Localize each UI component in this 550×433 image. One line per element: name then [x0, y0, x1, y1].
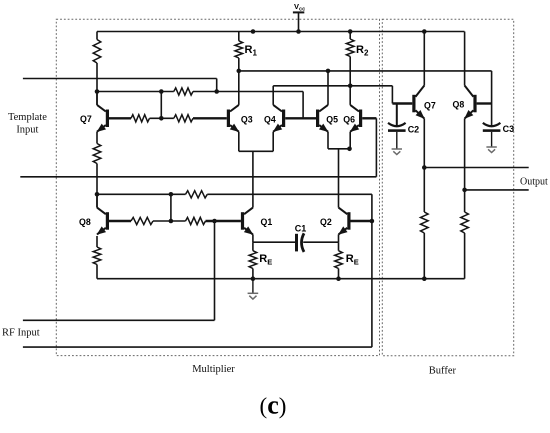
- wire buffer Q7 emitter: [423, 119, 425, 168]
- wire Q7 base lead: [109, 117, 131, 119]
- svg-text:Q7: Q7: [80, 114, 92, 124]
- wire row194 to Q2 base: [207, 193, 372, 195]
- wire Q2 base lead: [351, 220, 372, 222]
- wire Q6 emitter down: [349, 132, 351, 149]
- node output 2 junction: [462, 188, 467, 193]
- wire Q8 emitter down: [96, 236, 98, 247]
- wire Q5 emitter down: [327, 132, 329, 149]
- wire buffer Q8 emitter: [464, 119, 466, 190]
- node RF tie junction: [212, 219, 217, 224]
- svg-text:Q8: Q8: [453, 100, 465, 110]
- wire Q1 collector riser: [252, 151, 254, 207]
- svg-text:C1: C1: [295, 224, 307, 234]
- wire Q5/Q6 emitter bus: [328, 148, 350, 150]
- node junction B2: [169, 219, 174, 224]
- transistor Q2: [347, 212, 350, 230]
- capacitor C3: [483, 123, 501, 126]
- wire Q6 collector up: [349, 86, 351, 105]
- svg-text:(c): (c): [260, 391, 287, 420]
- wire Q7 collector: [96, 92, 98, 105]
- capacitor C2: [396, 104, 398, 127]
- node Q2 base junction: [370, 219, 375, 224]
- resistor buffer load 2: [464, 190, 466, 212]
- node template tie junction: [214, 89, 219, 94]
- ground C3: [486, 146, 496, 148]
- wire base row link: [150, 117, 174, 119]
- wire bottom rail: [97, 278, 465, 280]
- wire bias node row y91: [97, 91, 174, 93]
- wire top supply rail: [97, 31, 465, 33]
- svg-text:Q6: Q6: [343, 114, 355, 124]
- wire Q4/Q6 collector line: [273, 85, 392, 87]
- svg-text:Multiplier: Multiplier: [192, 364, 235, 375]
- svg-text:Q3: Q3: [241, 114, 253, 124]
- resistor Q8 base R2b: [186, 217, 206, 224]
- transistor Q6: [359, 110, 362, 128]
- svg-text:RF Input: RF Input: [2, 328, 40, 339]
- svg-text:Q4: Q4: [264, 114, 276, 124]
- node Q7 collector junction: [95, 89, 100, 94]
- wire output line 2: [465, 189, 529, 191]
- transistor Q1: [241, 212, 244, 230]
- wire buffer Q8 collector: [464, 32, 466, 86]
- wire Q2 emitter node: [303, 241, 338, 243]
- dashed box Multiplier section: [56, 19, 379, 355]
- wire base row2 link: [153, 220, 186, 222]
- node junction A: [159, 89, 164, 94]
- wire buffer Q8 base: [477, 102, 492, 104]
- wire output line 1: [424, 167, 528, 169]
- wire Q8 base lead: [109, 220, 131, 222]
- svg-text:Buffer: Buffer: [429, 366, 457, 377]
- wire to Q3 base: [193, 117, 227, 119]
- wire RF Input line 1: [23, 319, 215, 321]
- resistor Q8 base R2a: [131, 217, 153, 224]
- wire Q1 emitter down: [252, 234, 254, 242]
- svg-text:Output: Output: [520, 177, 548, 188]
- wire vertical link A: [160, 92, 162, 119]
- wire Q2 collector riser: [338, 149, 340, 208]
- power Vcc symbol: [293, 11, 304, 13]
- transistor Q4: [282, 110, 285, 128]
- dashed box Buffer section: [382, 19, 513, 355]
- wire Q3 collector up: [238, 71, 240, 105]
- resistor bias row bottom: [186, 191, 208, 198]
- node Q3 collector to R1: [237, 69, 242, 74]
- wire Q4 collector up: [272, 86, 274, 105]
- transistor Q8 (multiplier): [106, 212, 109, 230]
- wire Q8 collector: [96, 194, 98, 207]
- resistor Q7 base R1b: [174, 115, 193, 122]
- wire bias node row y194: [97, 193, 186, 195]
- node bus junction: [347, 147, 352, 152]
- node Q5 collector junction: [326, 69, 331, 74]
- wire Q1 emitter node: [253, 241, 295, 243]
- resistor Q7 base R1a: [131, 115, 150, 122]
- resistor left bias (top): [96, 32, 98, 40]
- node buffer Q7 collector junction: [422, 29, 427, 34]
- ground main: [252, 279, 254, 293]
- svg-text:Q7: Q7: [424, 100, 436, 110]
- wire Q6 base to template2: [362, 117, 376, 119]
- wire Q2 emitter down: [338, 234, 340, 242]
- svg-text:Q8: Q8: [79, 217, 91, 227]
- svg-text:Q2: Q2: [320, 217, 332, 227]
- svg-text:Q5: Q5: [326, 114, 338, 124]
- svg-text:C2: C2: [408, 124, 420, 134]
- wire Q3/Q4 emitter bus: [239, 150, 273, 152]
- capacitor C1: [295, 234, 298, 252]
- node buffer R1 bottom junction: [422, 276, 427, 281]
- resistor RE (right): [338, 242, 340, 251]
- wire buffer Q7 collector: [423, 32, 425, 86]
- svg-text:C3: C3: [503, 124, 515, 134]
- wire Template Input line 2: [20, 176, 376, 178]
- wire Q7 emitter down: [96, 132, 98, 144]
- transistor Q7 (multiplier): [106, 110, 109, 128]
- node stray junction on rail: [251, 29, 256, 34]
- svg-text:Input: Input: [16, 125, 38, 136]
- transistor Q8 (buffer): [473, 95, 476, 113]
- resistor Q7 emitter: [93, 144, 101, 164]
- wire Q3/Q5 collector line: [239, 70, 492, 72]
- transistor Q5: [316, 110, 319, 128]
- wire bias row to Q4/Q5 base drop: [193, 91, 303, 93]
- wire Q4-Q5 base link: [285, 117, 316, 119]
- wire to Q1 base: [206, 220, 241, 222]
- node junction B: [169, 192, 174, 197]
- node junction A2: [159, 116, 164, 121]
- wire Q4 emitter down: [272, 132, 274, 152]
- node Vcc junction on top rail: [296, 29, 301, 34]
- ground C2: [392, 148, 402, 150]
- svg-text:Template: Template: [8, 112, 47, 123]
- resistor R2: [349, 32, 351, 40]
- resistor RE (left): [252, 242, 254, 251]
- wire Q5 collector up: [327, 71, 329, 105]
- resistor buffer load 1: [423, 168, 425, 213]
- node R2 bottom junction: [348, 84, 353, 89]
- node Q8 collector junction: [95, 192, 100, 197]
- transistor Q3: [227, 110, 230, 128]
- resistor bias row top: [174, 88, 193, 95]
- node output 1 junction: [422, 165, 427, 170]
- transistor Q7 (buffer): [412, 95, 415, 113]
- wire RF Input line 2: [23, 346, 372, 348]
- node RE2 bottom junction: [336, 276, 341, 281]
- node R2 top junction: [348, 29, 353, 34]
- wire Template Input line 1: [23, 78, 217, 80]
- wire vertical link B: [170, 194, 172, 221]
- wire Q3 emitter down: [238, 132, 240, 152]
- resistor Q8 emitter: [93, 247, 101, 265]
- resistor R1: [238, 32, 240, 41]
- svg-text:Q1: Q1: [261, 217, 273, 227]
- node RE1 bottom junction: [251, 276, 256, 281]
